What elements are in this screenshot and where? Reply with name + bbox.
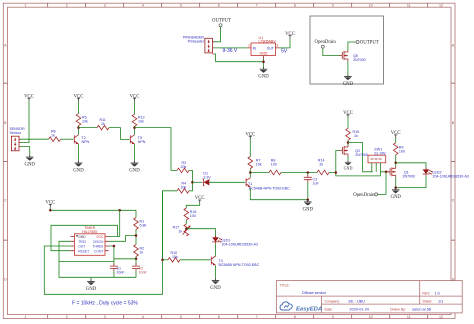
svg-text:2: 2: [66, 315, 68, 319]
power VCC (R16): [195, 196, 205, 203]
wire sensor pin3 to ground: [21, 147, 30, 155]
wire bottom gnd rail: [59, 262, 136, 280]
svg-text:Dfliuse sensor: Dfliuse sensor: [302, 291, 327, 295]
svg-text:NPN: NPN: [82, 140, 90, 144]
wire sensor pin1 to R6: [21, 138, 49, 140]
junction THRES: [113, 245, 116, 248]
svg-text:2N7000: 2N7000: [355, 153, 368, 157]
svg-text:2: 2: [66, 4, 68, 8]
junction OUT/R10: [161, 259, 164, 262]
svg-text:11: 11: [407, 315, 411, 319]
wire R3/R4 right junction: [189, 170, 192, 190]
wire LED2 to Q1 source to ground: [396, 176, 426, 190]
svg-text:1k: 1k: [51, 133, 55, 137]
wire LED1 to T4 collector: [215, 244, 217, 257]
svg-text:IN: IN: [253, 46, 257, 50]
wire VCC to sensor pin2: [19, 101, 29, 142]
svg-text:EasyEDA: EasyEDA: [296, 306, 322, 312]
svg-text:HA17555: HA17555: [82, 230, 97, 234]
ground (box): [343, 74, 354, 87]
wire R11 to T5 base: [109, 128, 130, 140]
transistor T5 NPN: [130, 135, 145, 144]
svg-text:F = 10kHz , Duty cycle = 53%: F = 10kHz , Duty cycle = 53%: [72, 301, 138, 307]
wire R2 to C2: [135, 257, 137, 265]
svg-text:SL SW: SL SW: [374, 151, 386, 155]
wire R8 to C3 node: [281, 172, 317, 174]
wire VCC to R16: [186, 203, 199, 208]
svg-text:1: 1: [25, 315, 27, 319]
node OpenDrain (net flag): [353, 193, 377, 198]
svg-text:6.8k: 6.8k: [140, 223, 147, 227]
svg-text:sarun.ar.58: sarun.ar.58: [412, 307, 431, 311]
resistor R1 6.8k: [134, 218, 147, 230]
ground (Q2): [344, 160, 353, 170]
transistor Q2 2N7000: [339, 145, 367, 157]
junction C3 top: [307, 171, 310, 174]
wire T1 emitter to gnd rail: [250, 189, 307, 200]
wire Q1 drain node to LED2: [396, 163, 426, 170]
resistor R6 1k: [49, 130, 61, 142]
wire R12 to T5 collector: [134, 126, 136, 134]
wire Q5 drain to OUTPUT: [348, 42, 356, 50]
svg-text:204-10SURD/S530-A3: 204-10SURD/S530-A3: [222, 243, 258, 247]
node OpenDrain (box): [315, 40, 337, 48]
svg-text:11: 11: [407, 4, 411, 8]
wire T1 collector node to R8: [250, 172, 269, 174]
svg-text:TRIG: TRIG: [78, 240, 86, 244]
svg-text:12: 12: [439, 4, 443, 8]
svg-text:BC546B NPN-TO92-EBC: BC546B NPN-TO92-EBC: [219, 263, 260, 267]
svg-text:8: 8: [294, 315, 296, 319]
svg-text:3.3V: 3.3V: [203, 175, 211, 179]
capacitor C2 10nF: [132, 263, 147, 274]
resistor R3 20k: [177, 161, 189, 173]
svg-text:5: 5: [180, 315, 182, 319]
transistor T4 BC546B: [211, 256, 259, 267]
ground (555): [86, 279, 97, 292]
timer U2 HA17555: [71, 226, 109, 255]
svg-text:10k: 10k: [138, 120, 144, 124]
svg-text:12: 12: [439, 315, 443, 319]
pinheader P1: [183, 36, 214, 54]
wire wiper to LED1: [186, 229, 215, 238]
svg-text:10nF: 10nF: [116, 270, 125, 274]
wire R14 to Q2 gate and jog to Q1 gate: [329, 151, 386, 176]
power VCC (R5): [74, 94, 84, 101]
resistor R14 2k: [317, 159, 329, 175]
svg-text:VCC: VCC: [96, 235, 104, 239]
resistor R12 10k: [132, 114, 144, 126]
junction T1 collector: [249, 171, 252, 174]
svg-text:1.0: 1.0: [435, 292, 440, 296]
svg-text:2N7000: 2N7000: [353, 58, 366, 62]
ground (T2): [73, 161, 84, 174]
svg-text:2N7000: 2N7000: [403, 174, 416, 178]
svg-text:3: 3: [104, 4, 106, 8]
LED2 204-10SURD/S530-A3: [423, 168, 469, 179]
svg-text:OUT: OUT: [78, 245, 85, 249]
resistor R10 10k: [168, 251, 180, 262]
svg-text:Sensor: Sensor: [10, 131, 22, 135]
junction T5 collector: [133, 126, 136, 129]
svg-text:1k: 1k: [178, 229, 182, 233]
junction VCC rail left: [49, 209, 52, 212]
svg-text:10k: 10k: [82, 120, 88, 124]
wire VCC to R5: [78, 101, 80, 113]
svg-text:NPN: NPN: [138, 140, 146, 144]
resistor R8 100: [269, 159, 281, 175]
svg-text:1k: 1k: [140, 250, 144, 254]
wire R7 to T1 collector: [249, 169, 251, 178]
svg-text:9-36 V: 9-36 V: [223, 48, 238, 54]
resistor R5 10k: [76, 114, 88, 126]
resistor R4 20k: [177, 182, 189, 194]
resistor R11 1k: [97, 118, 109, 130]
resistor R9 100: [393, 143, 404, 155]
wire VCC to R7: [249, 139, 251, 156]
resistor R17 1k (trimmer): [173, 224, 191, 236]
svg-text:GND: GND: [260, 51, 268, 55]
svg-text:1uF: 1uF: [313, 182, 320, 186]
svg-text:DISCH: DISCH: [93, 240, 104, 244]
wire TRIG down to left gnd leg: [59, 241, 114, 261]
svg-text:OUTPUT: OUTPUT: [360, 41, 379, 46]
svg-text:Date:: Date:: [325, 307, 333, 311]
svg-text:C: C: [452, 199, 455, 203]
ground (T4): [210, 278, 221, 291]
wire VCC to R12: [134, 101, 136, 114]
title block: [276, 281, 462, 313]
wire OUTPUT to P1 pin1: [213, 27, 221, 42]
svg-text:9: 9: [332, 315, 334, 319]
wire R15 to Q2 drain: [347, 140, 349, 146]
svg-text:2020-01-24: 2020-01-24: [350, 307, 369, 311]
box outline: [310, 16, 384, 84]
wire Q5 source to ground: [347, 61, 349, 74]
svg-text:100: 100: [190, 214, 196, 218]
svg-text:1: 1: [248, 44, 250, 48]
junction regulator gnd: [262, 60, 265, 63]
wire RESET loop over IC: [51, 225, 118, 250]
svg-text:5: 5: [180, 4, 182, 8]
svg-text:BC546B-NPN-TO92-EBC: BC546B-NPN-TO92-EBC: [249, 186, 290, 190]
wire R16 to R17: [185, 220, 187, 224]
svg-text:100: 100: [271, 163, 277, 167]
svg-text:7: 7: [256, 4, 258, 8]
node OUTPUT (box terminal): [356, 41, 379, 46]
wire VCC to R9: [395, 138, 397, 143]
svg-text:6: 6: [218, 315, 220, 319]
svg-text:Sheet:: Sheet:: [422, 299, 432, 303]
svg-text:REV:: REV:: [422, 292, 430, 296]
svg-text:3: 3: [276, 44, 278, 48]
svg-text:1k: 1k: [101, 122, 105, 126]
wire Q2 source to ground: [347, 156, 349, 160]
svg-text:OpenDrain: OpenDrain: [315, 40, 337, 45]
svg-text:CONT: CONT: [94, 249, 103, 253]
svg-text:20k: 20k: [181, 165, 187, 169]
junction VCC rail pin8: [118, 209, 121, 212]
svg-text:204-10SURD/S530-A3: 204-10SURD/S530-A3: [433, 174, 469, 178]
junction R16/R17 wiper: [185, 227, 188, 230]
svg-text:3: 3: [104, 315, 106, 319]
svg-text:Company:: Company:: [325, 299, 341, 303]
resistor R7 10k: [248, 157, 262, 169]
resistor R16 100: [184, 208, 196, 220]
capacitor C3 1uF: [304, 173, 320, 200]
svg-text:4: 4: [142, 4, 144, 8]
wire OpenDrain stub: [378, 172, 386, 195]
junction Q1 source: [394, 186, 397, 189]
EasyEDA logo: [280, 302, 322, 312]
wire T2 emitter to ground: [78, 144, 80, 161]
svg-text:5V: 5V: [281, 49, 288, 55]
svg-text:TITLE:: TITLE:: [280, 284, 290, 288]
svg-text:EE - UBU: EE - UBU: [349, 299, 366, 303]
wire R10 to T4 base: [180, 259, 211, 261]
wire THRES tap: [109, 246, 136, 265]
svg-text:8: 8: [294, 4, 296, 8]
svg-text:9: 9: [332, 4, 334, 8]
zener diode D1 3.3V: [202, 172, 211, 186]
junction R2 bottom: [135, 258, 138, 261]
wire R5 to T2 collector: [78, 126, 80, 135]
svg-text:GND: GND: [78, 235, 86, 239]
wire R4 left to 555 OUT net: [163, 191, 178, 260]
svg-text:Drawn By:: Drawn By:: [390, 307, 406, 311]
switch SW1 SL SW: [368, 148, 386, 172]
svg-text:Pinheader: Pinheader: [188, 40, 205, 44]
power VCC (R15): [343, 111, 353, 118]
wire T5 collector to R3: [135, 128, 178, 171]
junction T2 collector: [77, 126, 80, 129]
svg-text:10k: 10k: [256, 163, 262, 167]
svg-text:OUT: OUT: [267, 46, 274, 50]
svg-text:OpenDrain: OpenDrain: [353, 193, 375, 198]
power VCC (555): [45, 201, 55, 208]
wire P1 pin3 to GND rail: [214, 54, 264, 67]
wire R1 to R2 with DISCH tap: [109, 230, 136, 245]
ground (sensor): [24, 155, 35, 168]
wire VCC rail: [50, 207, 136, 210]
ground (T1/C3): [303, 200, 314, 213]
svg-text:7: 7: [256, 315, 258, 319]
wire R10 branch: [163, 259, 169, 261]
wire 555 OUT loop: [44, 191, 162, 294]
wire T5 emitter to ground: [134, 144, 136, 161]
svg-text:10: 10: [369, 4, 373, 8]
junction divider node: [191, 181, 194, 184]
svg-text:THRES: THRES: [92, 245, 104, 249]
transistor Q5 2N7000: [339, 50, 365, 62]
wire T4 emitter to ground: [215, 265, 217, 278]
junction Q1 gate node: [385, 171, 388, 174]
node OUTPUT (top terminal): [212, 19, 231, 27]
svg-text:1k: 1k: [354, 134, 358, 138]
transistor T1 BC546B: [246, 178, 290, 191]
svg-text:6: 6: [218, 4, 220, 8]
svg-text:4: 4: [142, 315, 144, 319]
resistor R15 1k: [346, 128, 359, 140]
wire T2 collector node to R11: [79, 127, 98, 129]
junction Q2 drain: [347, 141, 350, 144]
svg-text:20k: 20k: [181, 185, 187, 189]
wire Q2 drain node to SW1 rail: [348, 143, 373, 172]
resistor R2 1k: [134, 245, 144, 257]
wire D1 to T1 base: [209, 181, 245, 183]
power VCC (R12): [130, 94, 140, 101]
wire R9 to Q1 drain: [395, 155, 397, 167]
svg-text:1: 1: [25, 4, 27, 8]
svg-text:10: 10: [369, 315, 373, 319]
wire VCC rail to 555 VCC pin: [109, 210, 120, 236]
ground (T5): [129, 161, 140, 174]
wire U1 OUT to VCC: [280, 39, 291, 48]
wire VCC to R15: [347, 118, 349, 129]
svg-text:C: C: [4, 199, 7, 203]
connector P2 SENSOR: [10, 127, 26, 151]
svg-text:2k: 2k: [319, 163, 323, 167]
svg-text:100: 100: [399, 150, 405, 154]
transistor Q1 2N7000: [387, 166, 415, 178]
wire P1 pin2 to U1 IN: [214, 47, 247, 49]
transistor T2 NPN: [74, 135, 89, 144]
power VCC (R7): [245, 132, 255, 139]
capacitor C1 10nF: [110, 263, 125, 274]
svg-text:OUTPUT: OUTPUT: [212, 19, 231, 24]
svg-text:RESET: RESET: [78, 249, 89, 253]
wire junction to D1: [192, 181, 202, 183]
junction R1/R2: [135, 234, 138, 237]
ground (Q1): [390, 188, 401, 201]
svg-text:1/1: 1/1: [438, 299, 443, 303]
power VCC (regulator output): [285, 32, 295, 39]
svg-text:D: D: [4, 278, 7, 282]
regulator U1 L7805ABV: [247, 36, 280, 59]
LED1 204-10SURD/S530-A3: [212, 236, 258, 247]
wire gate lead to Q1: [386, 171, 390, 173]
wire OpenDrain to Q5 gate: [323, 48, 340, 55]
ground (regulator): [258, 67, 269, 80]
svg-text:10nF: 10nF: [139, 270, 148, 274]
wire rail to R1: [135, 210, 137, 217]
junction R14/Q2 gate: [335, 171, 338, 174]
power VCC (sensor): [24, 94, 34, 101]
svg-text:10k: 10k: [172, 255, 178, 259]
wire R6 to T2 base: [61, 138, 74, 140]
junction Q1 drain: [394, 162, 397, 165]
power VCC (R9): [391, 131, 401, 138]
junction emitter gnd rail: [307, 198, 310, 201]
